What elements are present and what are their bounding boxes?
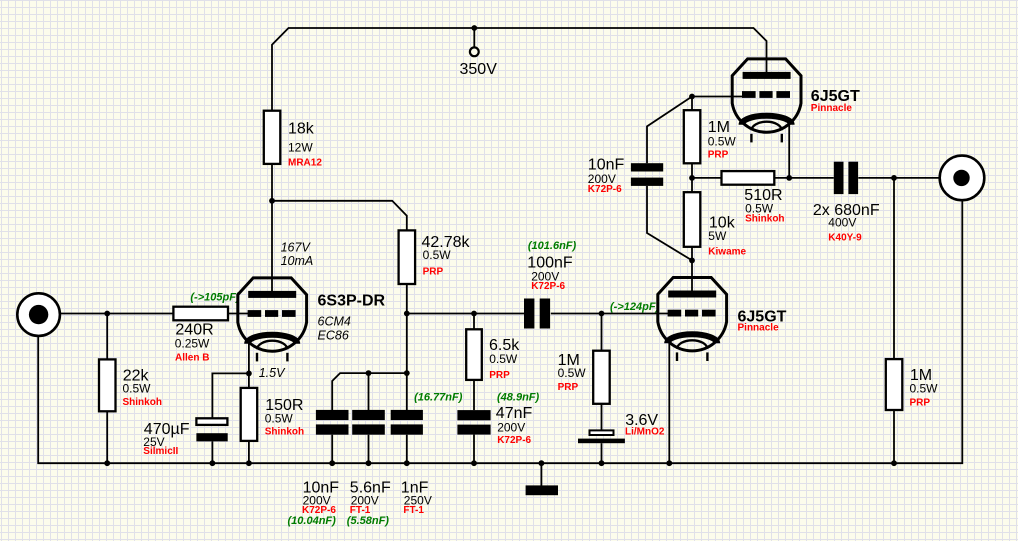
resistor 510R [722,171,775,185]
junction rail 150R [246,460,252,466]
resistor 1M bootstrap [684,110,701,163]
resistor 1M grid leak [593,351,610,404]
junction rail 470uF [210,460,216,466]
svg-text:PRP: PRP [910,398,931,409]
svg-text:350V: 350V [460,61,498,78]
battery 3.6V negative plate [578,439,625,444]
svg-text:Kiwame: Kiwame [708,247,746,258]
junction rail 22k [104,460,110,466]
svg-text:12W: 12W [288,141,313,155]
svg-text:(101.6nF): (101.6nF) [528,240,577,252]
svg-text:5W: 5W [708,229,727,243]
svg-text:Pinnacle: Pinnacle [738,323,780,334]
svg-text:6CM4: 6CM4 [318,314,351,328]
junction rail 47nF [471,460,477,466]
svg-text:Allen B: Allen B [175,353,209,364]
wire anode node to 42.78k top [272,201,407,231]
wire ground symbol stub [540,463,542,486]
junction signal node below 42.78k [404,311,410,317]
junction 350V tap on B+ rail [471,25,477,31]
resistor 42.78k [399,230,416,284]
svg-text:1.5V: 1.5V [259,366,286,380]
wire V1 cathode tap [248,338,250,373]
wire 1M output bottom to ground rail [893,410,895,463]
svg-text:(16.77nF): (16.77nF) [414,392,463,404]
capacitor bank 5.6nF [352,410,385,420]
wire 470uF bottom to ground rail [211,441,213,463]
tube V2 6J5GT lower envelope [658,278,727,351]
wire 1M bootstrap bottom to 510R node [691,163,693,178]
wire 100nF to V2 grid [551,313,668,315]
resistor 18k anode load [264,111,281,164]
svg-text:K72P-6: K72P-6 [497,435,531,446]
wire signal node down to cap bank connector [406,314,408,374]
junction 22k top [104,311,110,317]
svg-text:(5.58nF): (5.58nF) [347,515,390,527]
junction V3 cathode node [786,175,792,181]
capacitor bank 10nF [316,410,349,420]
svg-text:Li/MnO2: Li/MnO2 [625,427,665,438]
input jack pin [29,305,48,324]
svg-text:(10.04nF): (10.04nF) [288,515,337,527]
junction rail 10nF [329,460,335,466]
svg-text:0.5W: 0.5W [123,382,152,396]
wire 5.6nF top stub [368,373,370,410]
wire 10nF bottom stub to ground rail [331,435,333,464]
output jack outer [940,156,985,201]
wire cathode node to 150R [248,373,250,388]
svg-text:0.5W: 0.5W [423,248,452,262]
tube V3 6J5GT upper grid dashes [742,91,756,98]
ground symbol [526,485,558,495]
wire 22k top stub [106,314,108,360]
tube V2 6J5GT lower grid dashes [668,310,682,317]
svg-text:0.5W: 0.5W [265,412,294,426]
resistor 240R grid stopper [173,307,228,321]
wire signal row to 100nF [407,313,524,315]
wire 10nF bootstrap top diagonal to V3 grid node [647,97,692,164]
wire B+ top rail from 18k to V3 anode [272,28,767,111]
wire 10nF bootstrap bottom diagonal to V2 anode node [647,186,692,261]
tube V1 6S3P-DR anode plate [248,291,296,298]
wire V2 anode node into tube plate [691,260,693,293]
capacitor bank 1nF [391,410,423,420]
svg-text:(48.9nF): (48.9nF) [497,392,540,404]
wire 22k bottom to ground rail [106,411,108,463]
wire cathode node to 470uF [212,373,249,418]
resistor 1M output [886,359,903,410]
wire 680nF to output jack [858,177,939,179]
wire V2 cathode tap to ground rail [668,339,670,463]
svg-text:Shinkoh: Shinkoh [745,213,784,224]
output jack pin [953,170,969,186]
wire 510R to 680nF [774,177,834,179]
wire ground rail and jack returns [38,200,962,463]
tube V2 6J5GT lower base pins [676,352,678,361]
svg-text:200V: 200V [497,420,525,434]
capacitor 47nF [457,410,490,420]
svg-text:PRP: PRP [558,382,579,393]
junction 510R node [689,175,695,181]
junction V1 anode node [269,198,275,204]
svg-text:0.5W: 0.5W [489,352,518,366]
wire output node down to 1M [893,178,895,359]
svg-text:10nF: 10nF [588,156,625,173]
350V supply terminal circle [470,47,479,56]
svg-text:167V: 167V [281,241,312,255]
capacitor 470uF electrolytic negative plate [196,433,227,441]
svg-text:K40Y-9: K40Y-9 [828,232,862,243]
capacitor 100nF coupling [524,299,534,329]
wire battery to ground rail [601,443,603,463]
junction rail battery [599,460,605,466]
tube V2 6J5GT lower cathode arc [667,334,717,343]
tube V2 6J5GT lower heater arc [677,340,707,349]
tube V3 6J5GT upper cathode arc [742,116,792,125]
svg-text:SilmicII: SilmicII [143,446,178,457]
tube V3 6J5GT upper heater arc [752,122,782,131]
svg-text:0.5W: 0.5W [910,382,939,396]
wire V1 anode node into tube plate [271,201,273,293]
svg-text:PRP: PRP [423,266,444,277]
resistor 6.5k [466,329,482,380]
tube V3 6J5GT upper envelope [732,59,801,132]
wire 47nF to ground rail [473,435,475,464]
svg-text:0.5W: 0.5W [708,134,737,148]
svg-text:6S3P-DR: 6S3P-DR [318,292,386,309]
wire cap bank top connector [332,373,407,410]
svg-text:K72P-6: K72P-6 [531,281,565,292]
tube V3 6J5GT upper anode plate [743,72,791,79]
wire 5.6nF bottom stub to ground rail [368,435,370,464]
wire 1M bootstrap top stub [691,97,693,111]
junction cap bank connector right [404,370,410,376]
svg-text:PRP: PRP [708,150,729,161]
wire 6.5k to 47nF [473,380,475,410]
svg-text:Pinnacle: Pinnacle [811,103,853,114]
capacitor 2x 680nF output [834,162,844,194]
wire 240R to V1 grid [228,313,248,315]
svg-text:(->105pF): (->105pF) [190,291,240,303]
junction output node [891,175,897,181]
resistor 10k [684,192,701,247]
svg-text:FT-1: FT-1 [403,505,424,516]
junction cap bank connector middle [366,370,372,376]
wire 1M grid-leak top stub [601,314,603,351]
tube V1 6S3P-DR heater arc [257,341,287,350]
battery 3.6V positive plate [590,430,614,435]
wire 1M grid-leak to battery [601,404,603,431]
svg-text:0.25W: 0.25W [175,336,210,350]
resistor 22k input load [99,359,116,411]
wire 1nF top stub [406,373,408,410]
tube V1 6S3P-DR envelope [238,278,307,351]
svg-text:10mA: 10mA [281,254,314,268]
junction 6.5k top [471,311,477,317]
tube V2 6J5GT lower anode plate [668,291,716,298]
wire 42.78k bottom to signal node [406,284,408,314]
junction rail V2 cathode [666,460,672,466]
svg-text:Shinkoh: Shinkoh [265,427,304,438]
junction V2 anode node [689,258,695,264]
svg-text:Shinkoh: Shinkoh [123,397,162,408]
wire V3 cathode tap [788,120,790,178]
svg-text:PRP: PRP [489,370,510,381]
junction V3 grid node [689,94,695,100]
capacitor 470uF electrolytic positive plate [196,418,227,425]
junction rail ground symbol [539,460,545,466]
resistor 150R cathode [241,388,258,441]
tube V1 6S3P-DR base pins [256,353,258,362]
svg-text:K72P-6: K72P-6 [588,184,622,195]
wire 10k bottom to V2 anode node [691,247,693,261]
wire 150R bottom to ground rail [248,441,250,463]
wire 510R node to resistor [692,177,722,179]
svg-text:0.5W: 0.5W [558,366,587,380]
svg-text:EC86: EC86 [318,328,349,342]
wire 1nF bottom stub to ground rail [406,435,408,464]
junction rail 5.6nF [366,460,372,466]
wire V3 grid node to tube [692,96,743,98]
input jack outer [17,293,60,336]
tube V1 6S3P-DR cathode arc [247,335,297,344]
junction rail 1M output [891,460,897,466]
wire 6.5k top stub [473,314,475,330]
wire 350V terminal stub [473,28,475,47]
junction 1M grid-leak top [599,311,605,317]
svg-text:18k: 18k [288,121,315,138]
svg-text:(->124pF): (->124pF) [610,301,660,313]
wire 10k top stub [691,178,693,192]
junction rail 1nF [404,460,410,466]
junction V1 cathode node [246,371,252,377]
wire 18k bottom to V1 anode node [271,164,273,201]
svg-text:400V: 400V [828,216,856,230]
capacitor 10nF bootstrap [631,163,663,171]
tube V3 6J5GT upper base pins [750,134,752,143]
svg-text:MRA12: MRA12 [288,158,322,169]
wire input jack to 240R [60,313,173,315]
tube V1 6S3P-DR grid dashes [248,310,262,317]
